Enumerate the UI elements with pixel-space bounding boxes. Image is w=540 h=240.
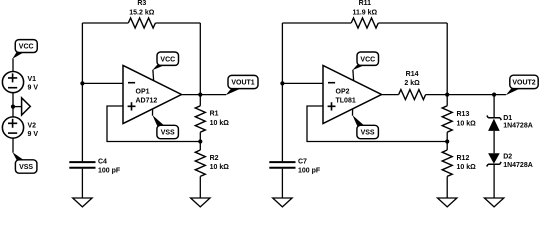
wire inverting input (stage 1) [82, 82, 123, 84]
svg-text:VCC: VCC [19, 44, 34, 51]
svg-text:C7: C7 [298, 159, 307, 166]
node junction inverting input (stage 2) [280, 81, 284, 85]
wire feedback top left segment (stage 2) [282, 22, 351, 24]
wire inverting input (stage 2) [282, 82, 323, 84]
svg-text:TL081: TL081 [336, 98, 356, 105]
svg-text:2 kΩ: 2 kΩ [404, 80, 420, 87]
label D2 1N4728A [503, 154, 533, 169]
node junction between V1 and V2 [11, 105, 15, 109]
label R12 10 k&#937; [457, 155, 477, 171]
VSS pin stub (stage 2) [352, 109, 364, 126]
svg-text:VOUT2: VOUT2 [512, 80, 535, 87]
VCC pin stub (stage 1) [152, 65, 164, 81]
common reference symbol (right-pointing triangle) [13, 98, 30, 115]
wire node to zener D1 [493, 95, 495, 118]
svg-text:1N4728A: 1N4728A [503, 122, 533, 129]
wire left vertical to C7 [281, 23, 283, 161]
label R3 15.2 k&#937; [129, 0, 154, 16]
op-amp U2 triangle [323, 65, 382, 123]
svg-text:D1: D1 [503, 115, 512, 122]
svg-text:V1: V1 [28, 76, 37, 83]
label R1 10 k&#937; [210, 111, 230, 127]
label R11 11.9 k&#937; [352, 0, 377, 16]
svg-text:VCC: VCC [360, 56, 375, 63]
wire feedback top right segment (stage 2) [378, 22, 447, 24]
svg-text:VOUT1: VOUT1 [231, 80, 254, 87]
wire R14 to output node [426, 94, 506, 96]
svg-text:R2: R2 [210, 155, 219, 162]
wire feedback top right segment (stage 1) [155, 22, 200, 24]
wire op-amp 1 output [182, 94, 227, 96]
svg-text:100 pF: 100 pF [98, 167, 121, 174]
wire left vertical to C4 [81, 23, 83, 161]
voltage source V1 [2, 72, 23, 93]
svg-text:11.9 kΩ: 11.9 kΩ [352, 9, 377, 16]
label R2 10 k&#937; [210, 155, 230, 171]
label R14 2 k&#937; [404, 71, 420, 87]
svg-text:C4: C4 [98, 159, 107, 166]
label C7 100 pF [298, 159, 321, 175]
svg-text:1N4728A: 1N4728A [503, 162, 533, 169]
wire D2 to ground [493, 164, 495, 198]
resistor R13 [442, 95, 452, 142]
svg-text:9 V: 9 V [28, 85, 39, 92]
resistor R11 [351, 18, 378, 28]
power flag VSS (sources) [15, 160, 37, 173]
svg-text:R14: R14 [406, 71, 419, 78]
flag VOUT2 pointer [506, 89, 520, 96]
VCC pin stub (stage 2) [352, 65, 364, 81]
op-amp inverting input marker [128, 82, 135, 84]
ground (R2) [191, 198, 210, 207]
node junction inverting input (stage 1) [80, 81, 84, 85]
svg-text:15.2 kΩ: 15.2 kΩ [129, 9, 154, 16]
wire D1 to D2 [493, 131, 495, 153]
zener diode D2 [487, 153, 501, 166]
node junction zener branch [492, 93, 496, 97]
op-amp U1 triangle [123, 65, 182, 123]
VSS pin stub (stage 1) [152, 109, 164, 126]
wire V1 to V2 [12, 93, 14, 117]
label V2 9 V [28, 123, 39, 139]
flag VOUT1 [228, 75, 258, 88]
svg-text:R1: R1 [210, 111, 219, 118]
power flag VCC (op-amp 1) [157, 52, 179, 65]
wire feedback top left segment (stage 1) [82, 22, 128, 24]
label C4 100 pF [98, 159, 121, 175]
wire feedback vertical (stage 2) [446, 23, 448, 95]
svg-text:10 kΩ: 10 kΩ [210, 164, 230, 171]
svg-text:AD712: AD712 [136, 98, 158, 105]
node junction R1/R2 (stage 1) [198, 139, 202, 143]
svg-text:VSS: VSS [161, 130, 175, 137]
zener diode D1 [487, 116, 501, 131]
wire op-amp 2 output to R14 [382, 94, 399, 96]
label OP1 AD712 [136, 89, 158, 105]
resistor R14 [399, 90, 426, 100]
flag VOUT1 pointer [226, 89, 241, 96]
op-amp 2 non-inverting input marker [328, 102, 336, 110]
svg-text:V2: V2 [28, 123, 37, 130]
wire non-inverting feedback loop (stage 2) [307, 106, 447, 142]
resistor R3 [128, 18, 155, 28]
svg-text:OP1: OP1 [136, 89, 150, 96]
svg-text:OP2: OP2 [336, 89, 350, 96]
capacitor C7 [269, 162, 295, 198]
resistor R12 [442, 142, 452, 199]
svg-text:10 kΩ: 10 kΩ [457, 164, 477, 171]
op-amp non-inverting input marker [128, 102, 136, 110]
power flag VSS (op-amp 2) [357, 125, 379, 138]
wire V2 to VSS [13, 138, 24, 160]
label R13 10 k&#937; [457, 111, 477, 127]
label OP2 TL081 [336, 89, 356, 105]
ground (D2) [484, 198, 503, 207]
op-amp 2 inverting input marker [328, 82, 335, 84]
flag VOUT2 [510, 75, 538, 88]
svg-text:VCC: VCC [160, 56, 175, 63]
resistor R2 [195, 142, 205, 199]
power flag VCC (op-amp 2) [357, 52, 379, 65]
label D1 1N4728A [503, 115, 533, 129]
label V1 9 V [28, 76, 39, 92]
power flag VSS (op-amp 1) [157, 125, 179, 138]
capacitor C4 [69, 162, 95, 198]
wire VCC to V1 [12, 52, 23, 71]
power flag VCC (sources) [15, 40, 37, 53]
node junction R13/R12 [445, 139, 449, 143]
svg-text:R13: R13 [457, 111, 470, 118]
svg-text:10 kΩ: 10 kΩ [457, 120, 477, 127]
svg-text:D2: D2 [503, 154, 512, 161]
svg-text:R11: R11 [359, 0, 372, 7]
ground (C7) [273, 198, 292, 207]
svg-text:VSS: VSS [361, 130, 375, 137]
node junction R13 top [445, 93, 449, 97]
resistor R1 [195, 95, 205, 142]
svg-text:R12: R12 [457, 155, 470, 162]
node junction output (stage 1) [198, 93, 202, 97]
svg-text:R3: R3 [137, 0, 146, 7]
voltage source V2 [2, 117, 23, 138]
wire non-inverting feedback loop (stage 1) [107, 106, 200, 142]
svg-text:10 kΩ: 10 kΩ [210, 120, 230, 127]
svg-text:100 pF: 100 pF [298, 167, 321, 174]
svg-text:9 V: 9 V [28, 131, 39, 138]
ground (R12) [438, 198, 457, 207]
ground (C4) [73, 198, 92, 207]
wire output vertical (stage 1) [199, 23, 201, 95]
svg-text:VSS: VSS [19, 164, 33, 171]
